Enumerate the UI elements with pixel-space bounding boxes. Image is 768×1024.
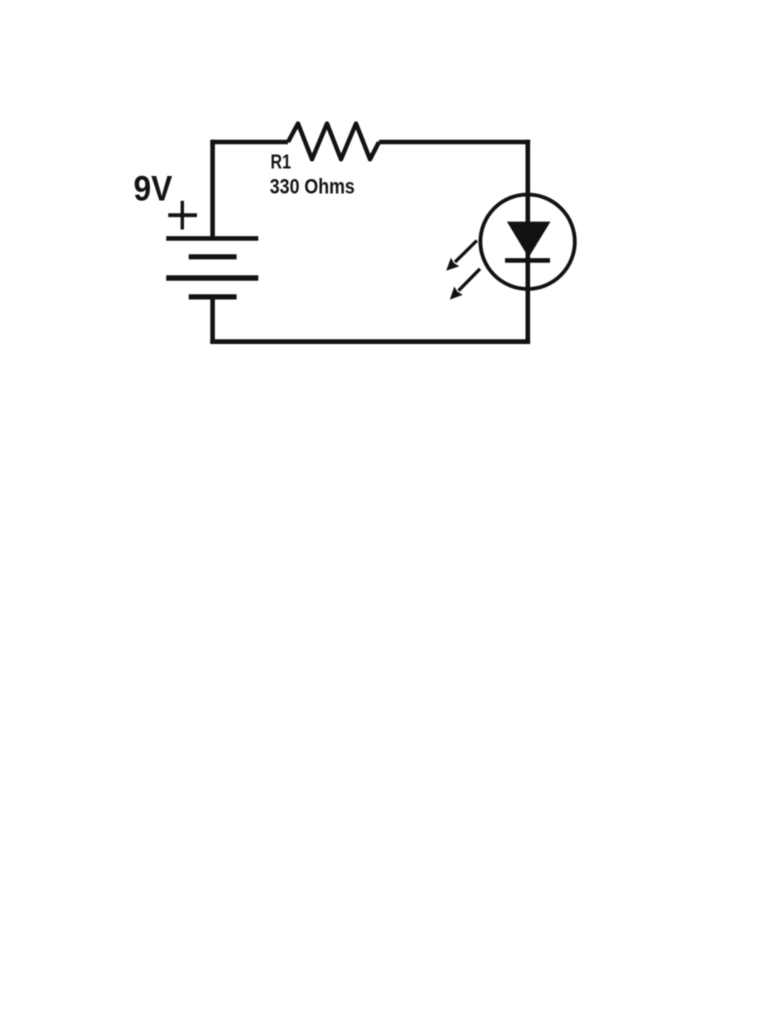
svg-text:330 Ohms: 330 Ohms	[270, 176, 355, 199]
svg-text:9V: 9V	[134, 169, 173, 208]
battery plus sign	[168, 201, 197, 230]
battery B1 short plate 2	[189, 254, 237, 259]
LED light arrow 2 shaft	[459, 269, 481, 291]
LED light arrow 1 shaft	[455, 241, 477, 263]
svg-text:R1: R1	[271, 151, 292, 174]
wire right vertical (through LED, top wire to bottom wire)	[525, 140, 530, 344]
battery B1 (9V) positive long plate	[166, 236, 258, 241]
wire top-left horizontal (battery + to resistor)	[210, 140, 288, 145]
LED D1 cathode bar	[505, 258, 550, 263]
battery B1 long plate 3	[166, 275, 258, 280]
wire bottom horizontal	[210, 339, 530, 344]
wire battery negative to bottom wire	[210, 297, 215, 344]
wire top-right horizontal (resistor to LED branch)	[379, 140, 530, 145]
battery B1 negative short plate 4	[189, 294, 237, 299]
LED D1 anode triangle	[507, 222, 551, 258]
wire left vertical (top wire down to battery positive plate)	[210, 140, 215, 238]
LED light arrow 1 head	[446, 258, 459, 271]
LED D1 circle	[480, 195, 574, 289]
LED light arrow 2 head	[450, 287, 463, 300]
resistor R1	[288, 124, 379, 160]
